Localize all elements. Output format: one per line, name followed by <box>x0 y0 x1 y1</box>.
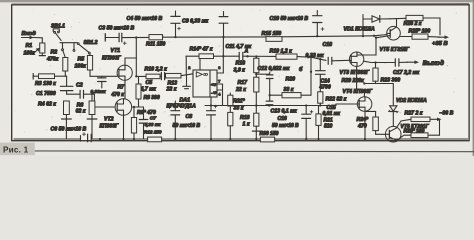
transistor VT1 <box>117 65 132 80</box>
wire R19 to node b <box>297 56 311 59</box>
wire node b column <box>310 57 312 95</box>
transistor VT4 <box>357 97 372 112</box>
svg-text:SB1.2: SB1.2 <box>84 40 98 46</box>
capacitor C13 <box>266 100 273 102</box>
bottom rule <box>35 150 474 153</box>
resistor R21 <box>318 106 320 114</box>
svg-text:6: 6 <box>218 66 220 70</box>
resistor R19 <box>276 54 297 59</box>
svg-text:0,33 мк: 0,33 мк <box>145 122 162 127</box>
svg-text:VT3 КП303Г: VT3 КП303Г <box>340 70 371 76</box>
capacitor C4 <box>175 11 177 16</box>
switch contact stubs <box>62 43 64 49</box>
resistor R3 <box>32 74 34 79</box>
zener VD2 <box>392 84 394 106</box>
svg-text:КП303Г: КП303Г <box>100 124 120 130</box>
svg-text:+35 В: +35 В <box>432 41 448 47</box>
switch SB1.2 <box>77 43 79 45</box>
wire R13 to DA1 input <box>181 74 193 76</box>
svg-text:470: 470 <box>357 123 367 129</box>
wire to VD1 <box>362 15 364 37</box>
svg-text:R10 2,2 к: R10 2,2 к <box>145 67 168 73</box>
node junction C3/VT1 <box>135 36 137 38</box>
wire bottom rail main <box>91 138 467 140</box>
svg-text:КП303Г: КП303Г <box>102 56 122 62</box>
capacitor C9 <box>223 12 225 17</box>
resistor R25 <box>412 34 428 39</box>
svg-text:R16: R16 <box>236 61 246 67</box>
wire VT3 drain stub <box>356 52 358 55</box>
wire rail left segment <box>122 36 149 38</box>
wire VT2 drain row <box>132 106 144 108</box>
svg-text:C10 50 мк×16 В: C10 50 мк×16 В <box>270 16 309 22</box>
svg-text:VD2 КС515А: VD2 КС515А <box>396 98 427 104</box>
svg-text:R27 2 к: R27 2 к <box>405 110 423 116</box>
svg-text:VT1: VT1 <box>111 48 121 54</box>
transistor VT3 <box>349 52 363 66</box>
wire feedback riser <box>185 56 187 75</box>
resistor R31 <box>229 93 231 95</box>
wire rail to VT3 drain <box>375 36 377 38</box>
wire rail mid <box>163 36 267 38</box>
wire R17 bottom <box>255 92 257 113</box>
svg-text:R9* 470: R9* 470 <box>137 110 156 116</box>
op-amp DA1 supply pins <box>217 83 223 85</box>
resistor R9 <box>133 107 135 118</box>
wire R16 top <box>255 57 257 59</box>
resistor R20 <box>282 93 301 98</box>
capacitor C10 <box>316 11 318 16</box>
svg-text:4,7 мк: 4,7 мк <box>140 87 157 93</box>
svg-text:C3 50 мк×16 В: C3 50 мк×16 В <box>99 26 135 32</box>
svg-text:510: 510 <box>324 124 333 130</box>
potentiometer R1 <box>40 43 45 53</box>
resistor R7 <box>138 76 140 84</box>
resistor R13 <box>166 73 182 78</box>
capacitor C16 <box>305 106 307 114</box>
terminal bar R18 column <box>252 130 260 132</box>
wire R14 to C11 <box>214 55 240 57</box>
transistor VT2 <box>115 99 132 116</box>
capacitor C8 <box>174 101 176 110</box>
resistor R15 <box>266 37 282 42</box>
svg-text:C5: C5 <box>146 80 153 86</box>
svg-text:С14: С14 <box>321 79 330 85</box>
svg-text:R31*: R31* <box>233 99 246 105</box>
svg-text:50 мк×16 В: 50 мк×16 В <box>272 123 299 129</box>
wire VD1 to R26 <box>390 17 406 20</box>
output arrow <box>399 61 408 63</box>
capacitor C18 <box>311 57 326 60</box>
wire C9 column to feedback row <box>222 37 224 56</box>
resistor R27 <box>411 117 430 122</box>
svg-text:R30 150: R30 150 <box>260 131 279 137</box>
svg-text:0,33мк: 0,33мк <box>91 89 107 94</box>
switch SB1.1 <box>53 29 59 32</box>
svg-text:C4 50 мк×16 В: C4 50 мк×16 В <box>127 16 163 22</box>
resistor R4 <box>64 101 70 115</box>
wire VT4 gate <box>330 104 357 106</box>
resistor R18 <box>254 113 259 126</box>
wire R26 to corner <box>423 18 440 35</box>
wire C2 to VT2 gate <box>84 94 115 107</box>
svg-text:C17 2,2 мк: C17 2,2 мк <box>393 70 419 76</box>
svg-text:470к: 470к <box>46 56 59 62</box>
ground at DA1 input <box>186 75 188 86</box>
svg-text:C8: C8 <box>186 114 193 120</box>
resistor R22 <box>318 92 323 103</box>
scan speckle texture <box>15 8 456 137</box>
svg-text:R7: R7 <box>118 85 125 91</box>
diode VD1 <box>372 16 380 22</box>
resistor R24 <box>365 111 376 117</box>
svg-text:–36 В: –36 В <box>440 110 454 116</box>
wire mid row <box>205 105 330 107</box>
svg-text:R11 150: R11 150 <box>146 42 165 48</box>
svg-text:R22 82 к: R22 82 к <box>326 97 347 103</box>
wire input to R1 <box>34 38 43 44</box>
svg-text:VT5 КТ315Г: VT5 КТ315Г <box>380 47 410 53</box>
svg-text:VT2: VT2 <box>104 117 114 123</box>
resistor R12 <box>148 137 162 142</box>
wire VT1 source <box>124 80 126 99</box>
wire bottom rail left <box>14 138 81 140</box>
resistor R30 <box>260 137 274 142</box>
resistor R23 <box>375 63 377 69</box>
capacitor C11 <box>238 52 240 60</box>
node rail junction <box>373 35 375 37</box>
svg-text:R8 300: R8 300 <box>144 95 160 101</box>
wire R24 to VT6 base <box>376 131 386 135</box>
svg-text:62 к: 62 к <box>76 108 86 114</box>
op-amp DA1 top pin <box>199 56 201 70</box>
svg-text:C2: C2 <box>76 82 83 88</box>
svg-text:R24*: R24* <box>357 117 370 123</box>
node b junction <box>310 56 312 58</box>
capacitor C14 <box>319 59 321 70</box>
svg-text:22 к: 22 к <box>166 87 177 93</box>
svg-text:2: 2 <box>188 66 190 70</box>
svg-text:470 к: 470 к <box>111 92 125 98</box>
capacitor C12 <box>256 73 269 75</box>
caption band <box>0 143 35 156</box>
svg-text:C18: C18 <box>323 42 333 48</box>
svg-text:R20: R20 <box>286 77 296 83</box>
resistor R17 <box>255 73 257 78</box>
capacitor C6 <box>80 136 82 142</box>
capacitor on gate wire <box>101 76 103 77</box>
transistor VT5 <box>387 26 401 40</box>
resistor R6 <box>91 94 93 101</box>
svg-text:R18: R18 <box>240 115 250 121</box>
wire VT3 emitter row <box>364 61 395 62</box>
wire SB1.1 to SB1.2 <box>60 42 77 44</box>
capacitor C8a <box>210 97 212 110</box>
resistor R14 <box>186 55 199 57</box>
resistor R5 <box>87 56 92 71</box>
wire C1 to C2 <box>67 93 80 95</box>
svg-text:1 к: 1 к <box>243 122 250 128</box>
resistor R2 <box>63 58 68 72</box>
transistor VT6 <box>385 126 401 142</box>
resistor R16 <box>254 58 259 72</box>
capacitor C7 <box>143 107 145 119</box>
svg-text:R14* 47 к: R14* 47 к <box>190 47 213 53</box>
schematic frame <box>12 5 469 141</box>
wire VT4 source to rail <box>364 111 366 139</box>
svg-text:C1 7500: C1 7500 <box>36 91 56 97</box>
op-amp DA1 <box>193 70 217 97</box>
wire VT6 collector to R27 <box>396 119 411 128</box>
op-amp DA1 output wire <box>217 72 223 74</box>
svg-text:R23 300: R23 300 <box>381 78 401 84</box>
svg-text:4700: 4700 <box>319 85 331 91</box>
wire VT1 gate junction <box>135 58 137 76</box>
svg-text:R26 2 к: R26 2 к <box>404 21 422 27</box>
svg-text:VT4 КП303Г: VT4 КП303Г <box>343 89 374 95</box>
svg-text:R3 130 к: R3 130 к <box>35 81 56 87</box>
scan top dark band <box>0 0 474 2</box>
svg-text:C7: C7 <box>150 115 157 121</box>
svg-text:R15 150: R15 150 <box>262 31 282 37</box>
svg-text:22 к: 22 к <box>235 87 246 93</box>
svg-text:R17: R17 <box>238 80 249 86</box>
svg-text:C9 0,33 мк: C9 0,33 мк <box>182 19 208 25</box>
capacitor C17 <box>394 59 396 66</box>
svg-text:3,9 к: 3,9 к <box>234 68 246 74</box>
svg-text:Вход: Вход <box>22 31 37 37</box>
svg-text:33 к: 33 к <box>234 106 244 112</box>
svg-text:Рис. 1: Рис. 1 <box>3 145 29 154</box>
wire rail right <box>282 36 374 37</box>
svg-text:A: A <box>244 48 249 54</box>
svg-text:С16: С16 <box>278 116 287 122</box>
input arrow <box>22 37 31 39</box>
resistor R28 <box>397 135 411 140</box>
svg-text:R5: R5 <box>78 57 85 63</box>
wire R1 bottom terminal <box>41 53 43 55</box>
scan right page edge <box>473 0 474 156</box>
capacitor C2 <box>79 90 81 98</box>
svg-text:+U: +U <box>211 82 216 87</box>
wire R5 to VT1 gate <box>89 70 91 76</box>
svg-text:R6: R6 <box>77 102 84 108</box>
resistor R26 <box>406 15 423 20</box>
svg-text:R29 220к: R29 220к <box>342 78 365 84</box>
node bottom rail junction <box>99 138 101 140</box>
svg-text:R12 150: R12 150 <box>144 129 162 134</box>
wire VT2 source to rail <box>123 115 125 139</box>
svg-text:R1: R1 <box>26 43 33 49</box>
svg-text:R4 62 к: R4 62 к <box>38 101 56 107</box>
wire VT3 source down <box>357 66 365 96</box>
capacitor C3 <box>104 34 106 41</box>
svg-text:0,01 мк: 0,01 мк <box>323 111 341 117</box>
capacitor C5 <box>160 75 161 77</box>
wire R27 arrow to -36V <box>430 118 438 120</box>
svg-text:7: 7 <box>218 80 220 84</box>
wire R22 bottom <box>319 103 321 105</box>
svg-text:50 мк×16 В: 50 мк×16 В <box>173 123 201 129</box>
svg-text:КР574УД1А: КР574УД1А <box>167 104 197 110</box>
svg-text:R2: R2 <box>51 50 58 56</box>
svg-text:100к: 100к <box>75 64 87 70</box>
power +35V arrow <box>438 36 445 38</box>
wire VT1 drain <box>125 38 136 65</box>
resistor R10 <box>136 75 146 77</box>
svg-text:VD1 КС515А: VD1 КС515А <box>344 27 375 33</box>
svg-text:C6 50 мк×16 В: C6 50 мк×16 В <box>51 127 87 133</box>
svg-text:–U: –U <box>211 90 216 95</box>
svg-text:Выход: Выход <box>423 59 444 67</box>
svg-text:C12 0,022 мк: C12 0,022 мк <box>258 66 290 72</box>
capacitor C1 <box>66 76 68 86</box>
resistor R11 <box>149 35 163 40</box>
svg-text:C13 0,1 мк: C13 0,1 мк <box>271 109 297 115</box>
wire R23 to VD2 row <box>364 83 393 85</box>
page background <box>0 0 474 156</box>
